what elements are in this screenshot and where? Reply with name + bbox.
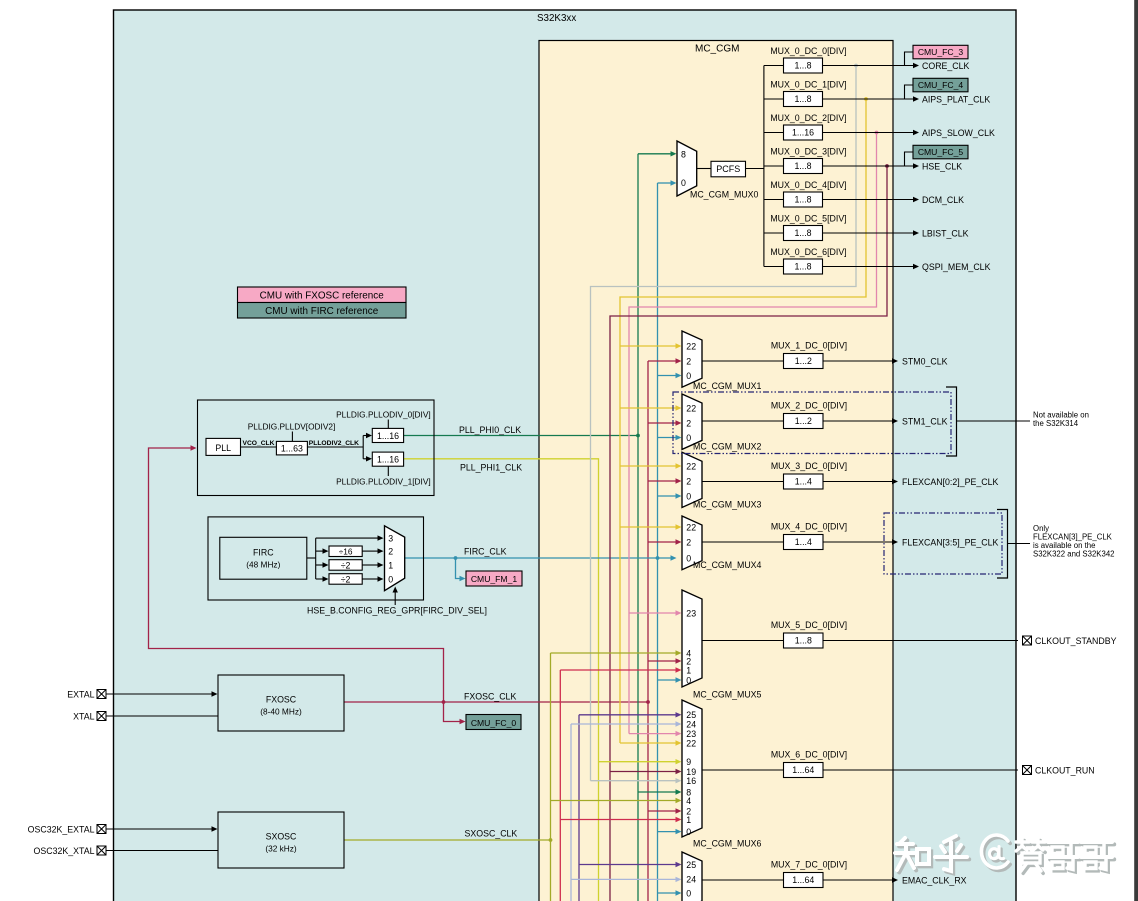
svg-text:SXOSC: SXOSC xyxy=(266,832,297,842)
wire MC_CGM_MUX4 output xyxy=(702,541,784,543)
svg-text:25: 25 xyxy=(686,860,696,870)
block SXOSC xyxy=(218,812,344,868)
wires MC_CGM_MUX6 inputs xyxy=(579,714,677,716)
block MC_CGM xyxy=(539,41,893,901)
svg-text:1...8: 1...8 xyxy=(794,262,811,272)
wire divider output LBIST_CLK xyxy=(823,232,914,234)
wires MC_CGM_MUX7 inputs xyxy=(579,864,677,866)
divider MUX_0_DC_1[DIV] xyxy=(784,92,823,107)
divider FIRC div2b xyxy=(329,574,362,585)
mux FIRC_DIV_SEL xyxy=(385,526,405,591)
svg-text:0: 0 xyxy=(686,433,691,443)
net FXOSC_CLK to PLL (maroon) xyxy=(344,701,444,703)
net HSE feedback (dark maroon, source 19) xyxy=(610,166,887,901)
net AIPS_PLAT feedback (yellow, source 22) xyxy=(620,99,866,743)
net PLL_PHI0_CLK (dark green) xyxy=(404,435,638,437)
divider FIRC div2a xyxy=(329,560,362,571)
svg-text:2: 2 xyxy=(388,547,393,557)
net source 24 vertical (periwinkle) xyxy=(570,724,572,901)
wire bus to divider MUX_0_DC_5[DIV] xyxy=(764,232,784,234)
svg-text:STM0_CLK: STM0_CLK xyxy=(902,356,948,366)
net CORE_CLK feedback (gray, source 16) xyxy=(591,66,857,781)
net source 25 vertical (violet) xyxy=(578,715,580,901)
svg-text:HSE_CLK: HSE_CLK xyxy=(922,161,962,171)
wire divider output DCM_CLK xyxy=(823,199,914,201)
wire bus to divider MUX_0_DC_3[DIV] xyxy=(764,165,784,167)
wire bus to divider MUX_0_DC_4[DIV] xyxy=(764,199,784,201)
divider MUX_1_DC_0[DIV] xyxy=(784,354,824,369)
svg-text:MUX_0_DC_3[DIV]: MUX_0_DC_3[DIV] xyxy=(770,147,846,157)
svg-text:PLL_PHI0_CLK: PLL_PHI0_CLK xyxy=(459,425,521,435)
svg-text:CMU_FM_1: CMU_FM_1 xyxy=(471,574,518,584)
svg-text:1: 1 xyxy=(686,815,691,825)
divider MUX_7_DC_0[DIV] xyxy=(784,873,824,888)
svg-text:1...16: 1...16 xyxy=(377,431,399,441)
divider PLLDV 1...63 xyxy=(276,441,307,455)
svg-text:MC_CGM_MUX2: MC_CGM_MUX2 xyxy=(693,442,762,452)
mux MC_CGM_MUX6 xyxy=(682,700,702,837)
svg-text:1...2: 1...2 xyxy=(795,416,812,426)
wire div2a to sel 1 xyxy=(362,564,378,566)
svg-text:OSC32K_XTAL: OSC32K_XTAL xyxy=(34,846,95,856)
svg-text:CMU with FXOSC reference: CMU with FXOSC reference xyxy=(260,291,385,302)
watermark zhihu @zangege xyxy=(897,837,1114,873)
svg-text:PLL: PLL xyxy=(215,443,231,453)
mux MC_CGM_MUX0 xyxy=(677,141,697,196)
divider PLLODIV_1 1...16 xyxy=(372,452,403,466)
svg-text:1...8: 1...8 xyxy=(794,94,811,104)
svg-text:CMU with FIRC reference: CMU with FIRC reference xyxy=(265,306,379,317)
wire into div2a xyxy=(316,564,323,566)
wire FIRC direct to sel 3 xyxy=(316,537,378,539)
svg-text:16: 16 xyxy=(686,776,696,786)
svg-text:PLL_PHI1_CLK: PLL_PHI1_CLK xyxy=(460,463,522,473)
net source 1 vertical (crimson) xyxy=(559,670,561,901)
svg-text:SXOSC_CLK: SXOSC_CLK xyxy=(465,829,518,839)
svg-text:MUX_4_DC_0[DIV]: MUX_4_DC_0[DIV] xyxy=(771,522,847,532)
wire into div2b xyxy=(316,578,323,580)
mux MC_CGM_MUX3 xyxy=(682,452,702,507)
net SXOSC_CLK (olive) xyxy=(344,839,551,841)
divider MUX_0_DC_0[DIV] xyxy=(784,58,823,73)
svg-text:4: 4 xyxy=(686,796,691,806)
svg-text:MC_CGM_MUX5: MC_CGM_MUX5 xyxy=(693,690,762,700)
wire divider output AIPS_SLOW_CLK xyxy=(823,132,914,134)
wire divider output HSE_CLK xyxy=(823,165,914,167)
net FXOSC_CLK main run xyxy=(444,701,649,703)
svg-text:CLKOUT_STANDBY: CLKOUT_STANDBY xyxy=(1035,636,1117,646)
svg-text:EMAC_CLK_RX: EMAC_CLK_RX xyxy=(902,875,967,885)
svg-text:PCFS: PCFS xyxy=(716,164,740,174)
svg-text:MUX_0_DC_4[DIV]: MUX_0_DC_4[DIV] xyxy=(770,180,846,190)
dashed box FLEXCAN option xyxy=(884,513,1002,574)
legend CMU with FIRC reference xyxy=(238,303,407,319)
svg-text:MUX_2_DC_0[DIV]: MUX_2_DC_0[DIV] xyxy=(771,401,847,411)
svg-text:0: 0 xyxy=(686,371,691,381)
svg-text:22: 22 xyxy=(686,738,696,748)
divider PLLODIV_0 1...16 xyxy=(372,428,403,442)
svg-text:LBIST_CLK: LBIST_CLK xyxy=(922,228,969,238)
svg-text:EXTAL: EXTAL xyxy=(67,690,94,700)
svg-text:S32K322 and S32K342: S32K322 and S32K342 xyxy=(1033,550,1115,559)
wire MC_CGM_MUX3 output xyxy=(702,481,784,483)
wire output EMAC_CLK_RX xyxy=(823,879,893,881)
CMU_FM_1 xyxy=(466,571,522,586)
svg-text:MUX_0_DC_5[DIV]: MUX_0_DC_5[DIV] xyxy=(770,214,846,224)
svg-text:FLEXCAN[3:5]_PE_CLK: FLEXCAN[3:5]_PE_CLK xyxy=(902,537,998,547)
wire output FLEXCAN[3:5]_PE_CLK xyxy=(823,541,893,543)
svg-text:MC_CGM_MUX0: MC_CGM_MUX0 xyxy=(690,190,759,200)
svg-text:9: 9 xyxy=(686,757,691,767)
svg-text:1...2: 1...2 xyxy=(795,356,812,366)
svg-text:1...8: 1...8 xyxy=(794,228,811,238)
svg-text:1...64: 1...64 xyxy=(792,875,814,885)
wire PLL_PHI0 into MC_CGM_MUX0 input 8 xyxy=(638,153,672,155)
svg-text:QSPI_MEM_CLK: QSPI_MEM_CLK xyxy=(922,262,991,272)
dashed box STM1 option xyxy=(673,392,951,454)
svg-text:(48 MHz): (48 MHz) xyxy=(246,560,280,570)
svg-text:22: 22 xyxy=(686,403,696,413)
bracket FLEXCAN note xyxy=(997,510,1008,579)
block FIRC outer xyxy=(208,517,424,600)
CMU_FC_0 xyxy=(466,715,521,730)
svg-text:MC_CGM: MC_CGM xyxy=(695,44,739,55)
wire MC_CGM_MUX7 output xyxy=(702,879,784,881)
wire FIRC_CLK to CMU_FM_1 xyxy=(456,558,461,579)
svg-text:FLEXCAN[0:2]_PE_CLK: FLEXCAN[0:2]_PE_CLK xyxy=(902,477,998,487)
divider MUX_0_DC_4[DIV] xyxy=(784,192,823,207)
bracket STM1 note xyxy=(946,387,957,456)
svg-text:OSC32K_EXTAL: OSC32K_EXTAL xyxy=(28,825,95,835)
wire FIRC fanout xyxy=(307,557,316,559)
svg-text:22: 22 xyxy=(686,522,696,532)
svg-text:1: 1 xyxy=(388,560,393,570)
svg-text:MUX_3_DC_0[DIV]: MUX_3_DC_0[DIV] xyxy=(771,461,847,471)
mux MC_CGM_MUX2 xyxy=(682,394,702,449)
outer block S32K3xx xyxy=(114,10,1017,901)
CMU_FC_3 xyxy=(913,45,968,59)
CMU_FC_5 xyxy=(913,145,968,159)
svg-text:1...8: 1...8 xyxy=(794,161,811,171)
svg-text:AIPS_PLAT_CLK: AIPS_PLAT_CLK xyxy=(922,94,990,104)
svg-text:0: 0 xyxy=(686,491,691,501)
svg-text:S32K3xx: S32K3xx xyxy=(537,13,576,24)
svg-text:DCM_CLK: DCM_CLK xyxy=(922,195,964,205)
wire divider output AIPS_PLAT_CLK xyxy=(823,98,914,100)
svg-text:the S32K314: the S32K314 xyxy=(1033,419,1079,428)
divider FIRC div16 xyxy=(329,546,362,557)
net FXOSC vertical (source 2) xyxy=(647,361,649,901)
svg-text:FIRC_CLK: FIRC_CLK xyxy=(464,547,507,557)
divider MUX_0_DC_3[DIV] xyxy=(784,159,823,174)
svg-text:MC_CGM_MUX6: MC_CGM_MUX6 xyxy=(693,839,762,849)
svg-text:MC_CGM_MUX4: MC_CGM_MUX4 xyxy=(693,560,762,570)
svg-text:MUX_0_DC_6[DIV]: MUX_0_DC_6[DIV] xyxy=(770,247,846,257)
svg-text:CMU_FC_0: CMU_FC_0 xyxy=(471,718,517,728)
svg-text:CORE_CLK: CORE_CLK xyxy=(922,61,970,71)
wire bus to divider MUX_0_DC_2[DIV] xyxy=(764,132,784,134)
divider MUX_4_DC_0[DIV] xyxy=(784,535,824,550)
svg-text:MUX_0_DC_0[DIV]: MUX_0_DC_0[DIV] xyxy=(770,46,846,56)
mux MC_CGM_MUX1 xyxy=(682,331,702,387)
wires MC_CGM_MUX5 inputs xyxy=(629,612,677,614)
wire PCFS to divider bus xyxy=(746,168,764,170)
svg-text:MC_CGM_MUX1: MC_CGM_MUX1 xyxy=(693,381,762,391)
svg-text:1...8: 1...8 xyxy=(794,61,811,71)
net PLL_PHI0 vertical (source 8) xyxy=(637,154,639,901)
svg-text:MUX_7_DC_0[DIV]: MUX_7_DC_0[DIV] xyxy=(771,860,847,870)
svg-text:AIPS_SLOW_CLK: AIPS_SLOW_CLK xyxy=(922,128,995,138)
net FIRC vertical (source 0) xyxy=(657,183,659,901)
svg-text:2: 2 xyxy=(686,537,691,547)
svg-text:FXOSC_CLK: FXOSC_CLK xyxy=(464,692,516,702)
svg-text:CMU_FC_4: CMU_FC_4 xyxy=(918,80,964,90)
svg-text:MUX_1_DC_0[DIV]: MUX_1_DC_0[DIV] xyxy=(771,341,847,351)
divider input bus xyxy=(763,66,765,267)
block FXOSC xyxy=(218,675,344,731)
wire PLLDV to PLLODIV dividers xyxy=(307,446,363,448)
wire bus to divider MUX_0_DC_1[DIV] xyxy=(764,98,784,100)
svg-text:PLLDIG.PLLODIV_0[DIV]: PLLDIG.PLLODIV_0[DIV] xyxy=(336,409,431,419)
divider MUX_2_DC_0[DIV] xyxy=(784,414,824,429)
svg-text:0: 0 xyxy=(686,888,691,898)
divider MUX_0_DC_5[DIV] xyxy=(784,226,823,241)
mux MC_CGM_MUX5 xyxy=(682,590,702,687)
svg-text:(32 kHz): (32 kHz) xyxy=(265,844,297,854)
net SXOSC vertical (source 4) xyxy=(550,653,552,901)
wire divider output QSPI_MEM_CLK xyxy=(823,266,914,268)
svg-text:FXOSC: FXOSC xyxy=(266,695,297,705)
svg-text:1: 1 xyxy=(686,665,691,675)
net PLL_PHI1_CLK (yellow-green) xyxy=(404,459,599,901)
CMU_FC_4 xyxy=(913,78,968,92)
wire bus to divider MUX_0_DC_0[DIV] xyxy=(764,65,784,67)
wire divider output CORE_CLK xyxy=(823,65,914,67)
wires MC_CGM_MUX1 inputs xyxy=(620,345,677,347)
wires MC_CGM_MUX4 inputs xyxy=(620,526,677,528)
net AIPS_SLOW feedback (pink, source 23) xyxy=(629,133,877,734)
svg-text:22: 22 xyxy=(686,461,696,471)
svg-text:1...8: 1...8 xyxy=(795,636,812,646)
net FIRC_CLK (teal) straight into MUX4 input 0 xyxy=(405,557,672,559)
legend CMU with FXOSC reference xyxy=(238,287,407,303)
svg-text:CMU_FC_3: CMU_FC_3 xyxy=(918,47,964,57)
wire FXOSC_CLK to CMU_FC_0 xyxy=(444,702,461,722)
svg-text:PLLDIG.PLLODIV_1[DIV]: PLLDIG.PLLODIV_1[DIV] xyxy=(336,476,431,486)
svg-text:MUX_6_DC_0[DIV]: MUX_6_DC_0[DIV] xyxy=(771,750,847,760)
svg-text:24: 24 xyxy=(686,719,696,729)
wire MUX0 to PCFS xyxy=(697,168,711,170)
wire output CLKOUT_STANDBY xyxy=(823,640,1018,642)
svg-text:1...16: 1...16 xyxy=(377,455,399,465)
wire into div16 xyxy=(316,550,323,552)
wire HSE_CLK to CMU_FC_5 xyxy=(905,152,914,166)
svg-text:22: 22 xyxy=(686,341,696,351)
svg-text:÷16: ÷16 xyxy=(339,547,353,557)
svg-text:23: 23 xyxy=(686,608,696,618)
svg-text:1...8: 1...8 xyxy=(794,195,811,205)
svg-text:2: 2 xyxy=(686,476,691,486)
svg-text:HSE_B.CONFIG_REG_GPR[FIRC_DIV_: HSE_B.CONFIG_REG_GPR[FIRC_DIV_SEL] xyxy=(307,605,487,615)
svg-text:VCO_CLK: VCO_CLK xyxy=(243,440,275,447)
svg-text:MUX_5_DC_0[DIV]: MUX_5_DC_0[DIV] xyxy=(771,620,847,630)
svg-text:24: 24 xyxy=(686,875,696,885)
svg-text:8: 8 xyxy=(681,150,686,160)
svg-text:0: 0 xyxy=(686,675,691,685)
svg-text:0: 0 xyxy=(681,178,686,188)
wire AIPS_PLAT_CLK to CMU_FC_4 xyxy=(905,85,914,99)
svg-text:PLLODIV2_CLK: PLLODIV2_CLK xyxy=(309,440,359,447)
wire output FLEXCAN[0:2]_PE_CLK xyxy=(823,481,893,483)
svg-text:1...16: 1...16 xyxy=(792,128,814,138)
svg-text:1...4: 1...4 xyxy=(795,537,812,547)
svg-text:0: 0 xyxy=(686,827,691,837)
svg-text:1...4: 1...4 xyxy=(795,477,812,487)
block PCFS xyxy=(711,161,746,177)
page edge dark bar xyxy=(1134,0,1138,901)
wire div16 to sel 2 xyxy=(362,550,378,552)
svg-text:(8-40 MHz): (8-40 MHz) xyxy=(260,707,302,717)
svg-text:1...64: 1...64 xyxy=(792,765,814,775)
svg-text:2: 2 xyxy=(686,356,691,366)
svg-text:0: 0 xyxy=(686,553,691,563)
svg-text:MUX_0_DC_1[DIV]: MUX_0_DC_1[DIV] xyxy=(770,80,846,90)
wires MC_CGM_MUX3 inputs xyxy=(620,465,677,467)
svg-text:3: 3 xyxy=(388,534,393,544)
svg-text:CLKOUT_RUN: CLKOUT_RUN xyxy=(1035,765,1095,775)
block PLL xyxy=(206,438,241,455)
wires MC_CGM_MUX2 inputs xyxy=(620,407,677,409)
wire MC_CGM_MUX1 output xyxy=(702,360,784,362)
svg-text:PLLDIG.PLLDV[ODIV2]: PLLDIG.PLLDV[ODIV2] xyxy=(248,421,336,431)
wire FIRC into MC_CGM_MUX0 input 0 xyxy=(658,182,672,184)
svg-text:÷2: ÷2 xyxy=(341,574,351,584)
svg-text:2: 2 xyxy=(686,418,691,428)
svg-text:1...63: 1...63 xyxy=(281,443,303,453)
wire PLL to PLLDV xyxy=(241,446,277,448)
wire output STM1_CLK xyxy=(823,420,893,422)
wire output STM0_CLK xyxy=(823,360,893,362)
svg-text:MUX_0_DC_2[DIV]: MUX_0_DC_2[DIV] xyxy=(770,113,846,123)
divider MUX_0_DC_2[DIV] xyxy=(784,125,823,140)
svg-text:÷2: ÷2 xyxy=(341,560,351,570)
block FIRC xyxy=(220,537,307,579)
wire div2b to sel 0 xyxy=(362,578,378,580)
wire FIRC_DIV_SEL select input xyxy=(394,592,396,605)
wire MC_CGM_MUX2 output xyxy=(702,420,784,422)
wire CORE_CLK to CMU_FC_3 xyxy=(905,52,914,66)
wire MC_CGM_MUX5 output xyxy=(702,640,784,642)
wire output CLKOUT_RUN xyxy=(823,769,1018,771)
svg-text:CMU_FC_5: CMU_FC_5 xyxy=(918,147,964,157)
svg-text:FIRC: FIRC xyxy=(253,548,274,558)
mux MC_CGM_MUX4 xyxy=(682,516,702,570)
divider MUX_0_DC_6[DIV] xyxy=(784,259,823,274)
divider MUX_5_DC_0[DIV] xyxy=(784,633,824,648)
mux MC_CGM_MUX7 xyxy=(682,852,702,901)
divider MUX_6_DC_0[DIV] xyxy=(784,763,824,778)
svg-text:STM1_CLK: STM1_CLK xyxy=(902,416,948,426)
block PLL outer xyxy=(198,400,435,496)
wire MC_CGM_MUX6 output xyxy=(702,769,784,771)
wire bus to divider MUX_0_DC_6[DIV] xyxy=(764,266,784,268)
svg-text:0: 0 xyxy=(388,574,393,584)
svg-text:MC_CGM_MUX3: MC_CGM_MUX3 xyxy=(693,500,762,510)
divider MUX_3_DC_0[DIV] xyxy=(784,474,824,489)
svg-text:XTAL: XTAL xyxy=(73,712,94,722)
